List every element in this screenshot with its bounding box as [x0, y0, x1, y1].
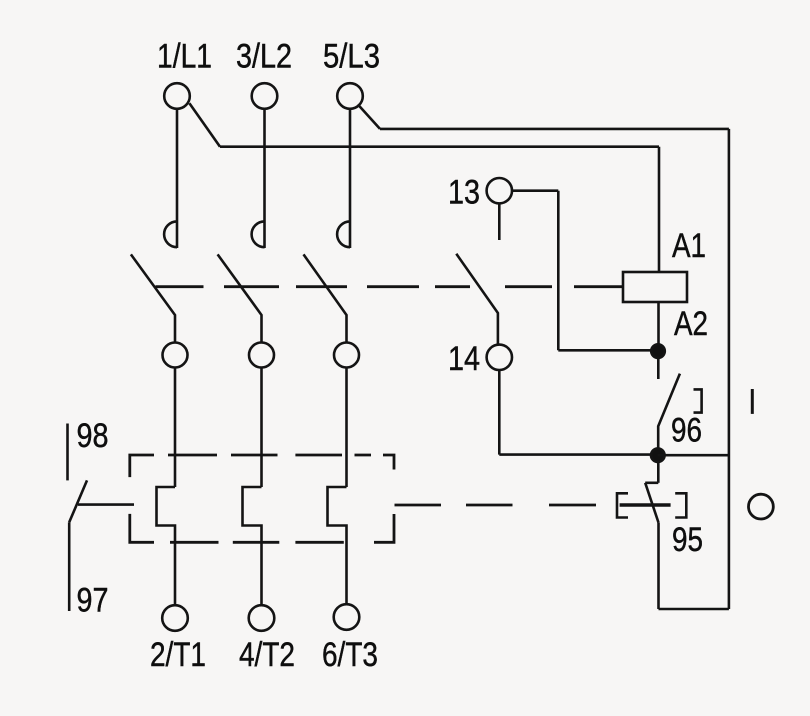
svg-text:95: 95	[672, 521, 703, 559]
wire aux vertical drop	[557, 191, 560, 351]
svg-text:A1: A1	[672, 227, 706, 265]
node pole2 lower terminal	[249, 343, 274, 368]
svg-text:3/L2: 3/L2	[236, 38, 292, 76]
wire L1 tap diagonal	[189, 103, 220, 147]
indicator OFF circle	[749, 494, 774, 519]
heater element pole2	[243, 487, 262, 605]
terminal 13	[487, 178, 512, 203]
svg-text:96: 96	[671, 412, 702, 450]
contact 95 stub	[645, 481, 658, 484]
wire 13 to right	[512, 189, 558, 192]
wire 97-98 to relay box	[78, 503, 134, 506]
terminal 2/T1	[162, 605, 188, 631]
wire right side vertical	[728, 129, 731, 609]
node A2 junction	[651, 344, 665, 358]
svg-text:13: 13	[448, 174, 480, 212]
wire L1 lead down	[176, 109, 179, 248]
wire coil A1 drop	[658, 147, 661, 272]
wire right feed horizontal	[380, 128, 729, 131]
wire pole1 to heater	[174, 368, 177, 488]
terminal 14	[487, 345, 512, 370]
contact pole2 fixed arc	[252, 221, 265, 247]
overload relay dashed box	[130, 455, 394, 542]
terminal 4/T2	[249, 605, 275, 631]
terminal 3/L2	[252, 83, 278, 109]
contact pole1 fixed arc	[164, 221, 177, 247]
wire pole3 to heater	[345, 368, 348, 488]
wire 97 lead	[68, 522, 71, 611]
linkage dashed line	[156, 285, 624, 288]
heater element pole1	[157, 487, 176, 605]
wire 14 lead down	[498, 370, 501, 455]
contact aux 13-14 blade	[456, 254, 498, 345]
contact 96 stop bracket	[694, 389, 702, 412]
heater element pole3	[328, 487, 347, 604]
svg-text:6/T3: 6/T3	[322, 636, 378, 674]
wire 14 to node 96	[499, 453, 658, 456]
wire L3 lead down	[349, 109, 352, 248]
indicator ON bar	[751, 389, 754, 414]
contact pole2 blade	[218, 254, 262, 342]
wire pole2 to heater	[260, 368, 263, 488]
terminal 6/T3	[334, 604, 360, 630]
wire node A2 down	[657, 358, 660, 379]
node 96 junction	[651, 448, 665, 462]
wire 13 lead down	[498, 203, 501, 240]
svg-text:98: 98	[77, 417, 109, 455]
svg-text:14: 14	[448, 340, 480, 378]
wire node 96 down	[657, 462, 660, 483]
contact pole3 blade	[304, 254, 347, 342]
coil A1-A2	[623, 272, 687, 302]
contact 95 bar	[620, 503, 671, 506]
contact 95 blade	[645, 483, 658, 523]
wire L2 lead down	[263, 109, 266, 248]
node pole3 lower terminal	[334, 343, 359, 368]
svg-text:1/L1: 1/L1	[157, 38, 212, 76]
wire 95 lead down	[657, 523, 660, 609]
terminal 5/L3	[337, 83, 363, 109]
wire bottom right return	[659, 608, 729, 611]
wire coil A2 lead	[657, 302, 660, 344]
wire control feed horizontal	[220, 145, 659, 148]
wire L3 tap diagonal	[358, 104, 380, 128]
svg-text:A2: A2	[674, 305, 708, 343]
contact 97-98 blade	[69, 480, 87, 522]
wire 98 lead	[66, 424, 69, 481]
contact pole3 fixed arc	[337, 221, 350, 247]
terminal 1/L1	[164, 83, 190, 109]
wire aux to node A2	[558, 349, 658, 352]
svg-text:97: 97	[77, 582, 109, 620]
contact pole1 blade	[131, 254, 175, 342]
contact 95 right bracket	[675, 493, 686, 517]
svg-text:5/L3: 5/L3	[323, 38, 380, 76]
contact 95 left bracket	[617, 493, 628, 517]
wire node 96 to right rail	[658, 454, 729, 457]
contact 96 blade	[658, 374, 680, 449]
node pole1 lower terminal	[163, 343, 188, 368]
trip linkage dashed line	[395, 504, 597, 507]
svg-text:2/T1: 2/T1	[150, 636, 206, 674]
svg-text:4/T2: 4/T2	[239, 636, 295, 674]
